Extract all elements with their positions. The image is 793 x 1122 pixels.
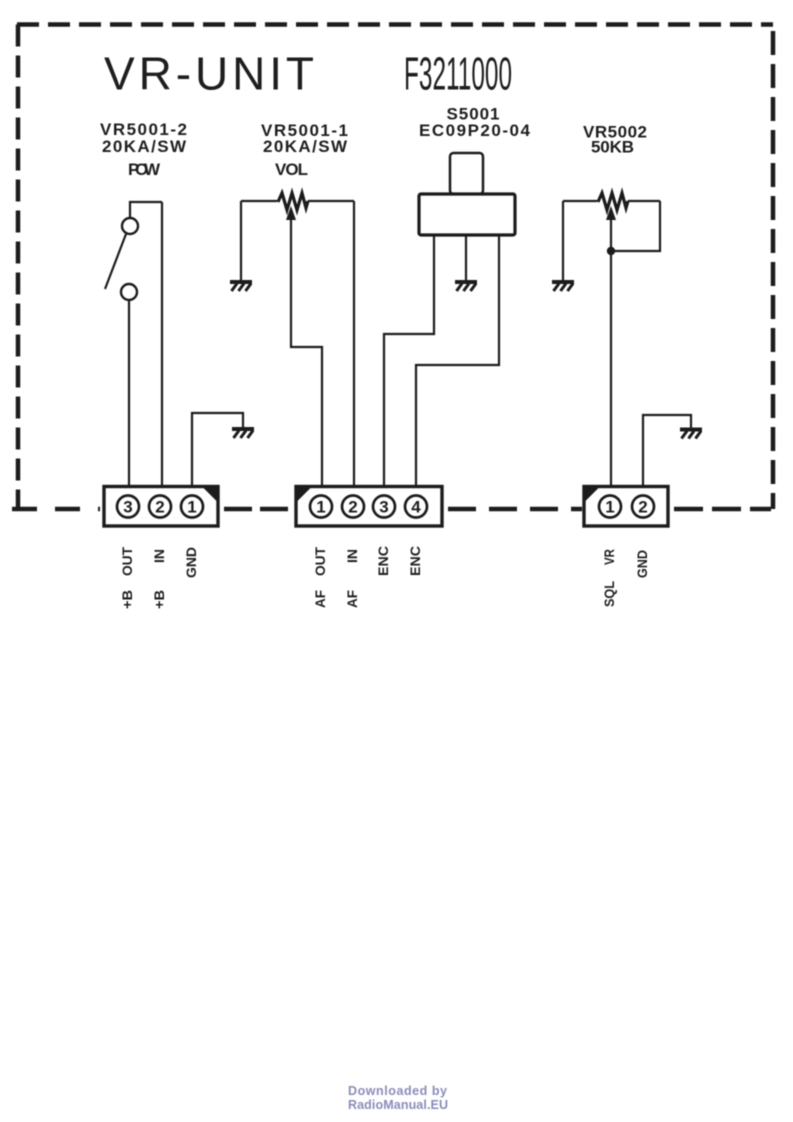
svg-text:GND: GND xyxy=(634,550,650,578)
switch upper contact circle xyxy=(122,218,138,234)
label VR5001-1 20KA/SW xyxy=(261,121,348,156)
ground (VR5002 pin2) xyxy=(680,430,702,439)
svg-text:3: 3 xyxy=(379,498,388,517)
pin label AF OUT (J2 pin1) xyxy=(312,547,328,608)
svg-text:3: 3 xyxy=(123,498,132,517)
potentiometer VR5002 body wire xyxy=(563,200,660,202)
wire pin 1 to ground xyxy=(192,413,243,487)
svg-text:+B: +B xyxy=(119,590,135,609)
wire S5001 left leg to pin 3 xyxy=(384,235,434,487)
svg-text:AF: AF xyxy=(344,590,360,608)
encoder S5001 stem xyxy=(450,153,483,194)
connector J3 pin 2 xyxy=(632,496,654,518)
svg-text:2: 2 xyxy=(348,498,357,517)
svg-text:VOL: VOL xyxy=(275,160,308,179)
svg-text:RadioManual.EU: RadioManual.EU xyxy=(348,1098,448,1112)
connector J2 pin 4 xyxy=(405,496,427,518)
svg-text:1: 1 xyxy=(187,498,196,517)
connector J2 pin 1 xyxy=(310,496,332,518)
svg-text:Downloaded by: Downloaded by xyxy=(348,1084,447,1098)
potentiometer VR5001-1 body wire xyxy=(241,200,354,202)
potentiometer VR5002 zigzag xyxy=(598,193,628,210)
wire VR5002 right end to wiper junction xyxy=(611,201,660,251)
dashed enclosure border bottom segments xyxy=(12,507,771,512)
encoder S5001 body xyxy=(419,194,515,235)
svg-text:ENC: ENC xyxy=(407,546,423,576)
svg-text:VR: VR xyxy=(601,549,617,565)
connector J1 pin 2 xyxy=(149,496,171,518)
ground (S5001) xyxy=(455,282,477,291)
connector J2 (VOL/ENC) box xyxy=(296,487,442,527)
svg-text:50KB: 50KB xyxy=(591,138,634,157)
label VR5002 50KB xyxy=(583,123,647,157)
switch lower contact circle xyxy=(121,284,137,300)
ground (POW pin1) xyxy=(232,429,254,438)
connector J2 pin 2 xyxy=(342,496,364,518)
connector J3 (SQL) box xyxy=(584,487,668,527)
label VR5001-2 20KA/SW xyxy=(100,120,187,156)
wire switch right to pin 2 xyxy=(161,202,163,487)
svg-text:IN: IN xyxy=(151,549,167,563)
wire VR5001-1 right end to pin 2 xyxy=(353,201,355,487)
pin label AF IN (J2 pin2) xyxy=(344,549,360,608)
potentiometer VR5001-1 zigzag xyxy=(278,193,308,210)
pin label +B IN (J1 pin2) xyxy=(151,549,167,609)
switch arm xyxy=(105,234,126,289)
svg-text:EC09P20-04: EC09P20-04 xyxy=(419,121,531,140)
svg-text:1: 1 xyxy=(605,498,614,517)
label S5001 EC09P20-04 xyxy=(419,105,531,141)
connector J1 (POW) box xyxy=(104,487,218,527)
dashed enclosure border top xyxy=(17,22,773,27)
pin label +B OUT (J1 pin3) xyxy=(119,547,135,609)
watermark Downloaded by RadioManual.EU xyxy=(348,1084,448,1112)
svg-text:OUT: OUT xyxy=(119,547,135,576)
svg-text:1: 1 xyxy=(316,498,325,517)
junction node VR5002 xyxy=(607,247,615,255)
svg-text:20KA/SW: 20KA/SW xyxy=(263,137,348,156)
svg-text:+B: +B xyxy=(151,590,167,609)
wire VR5001-1 left end to ground xyxy=(240,201,242,280)
wire S5001 right leg to pin 4 xyxy=(416,235,499,487)
wire VR5002 left end to ground xyxy=(562,201,564,280)
svg-text:IN: IN xyxy=(344,549,360,563)
connector J3 pin 1 xyxy=(599,496,621,518)
svg-text:4: 4 xyxy=(411,498,421,517)
ground (VR5001-1 left) xyxy=(230,282,252,291)
svg-text:F3211000: F3211000 xyxy=(404,48,512,100)
svg-text:20KA/SW: 20KA/SW xyxy=(102,137,187,156)
VR5001-1 wiper arrow xyxy=(286,206,322,487)
svg-text:GND: GND xyxy=(183,547,199,578)
title VR-UNIT F3211000 xyxy=(104,48,512,100)
connector J1 pin 1 xyxy=(181,496,203,518)
dashed enclosure border left xyxy=(16,25,21,509)
svg-text:2: 2 xyxy=(638,498,647,517)
switch S POW wiring top xyxy=(130,202,162,218)
svg-text:ENC: ENC xyxy=(375,546,391,576)
wire VR5002 pin 2 to ground xyxy=(643,415,691,487)
svg-text:OUT: OUT xyxy=(312,547,328,576)
wire S5001 middle leg to ground xyxy=(465,235,467,280)
svg-text:AF: AF xyxy=(312,590,328,608)
svg-text:2: 2 xyxy=(155,498,164,517)
svg-text:SQL: SQL xyxy=(601,581,617,607)
connector J1 pin 3 xyxy=(117,496,139,518)
connector J2 pin 3 xyxy=(373,496,395,518)
pin label SQL VR (J3 pin1) xyxy=(601,549,617,607)
dashed enclosure border right xyxy=(771,31,776,509)
VR5002 wiper arrow and wire to pin 1 xyxy=(606,206,616,487)
ground (VR5002 left) xyxy=(552,282,574,291)
wire switch lower to pin 3 xyxy=(128,300,130,487)
svg-text:POW: POW xyxy=(128,160,161,179)
